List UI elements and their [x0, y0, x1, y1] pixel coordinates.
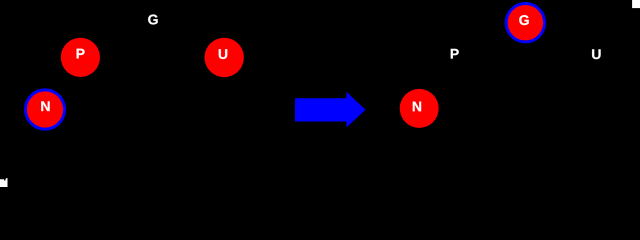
node G (right tree, red with blue current-node ring) [506, 4, 544, 42]
node P (left tree, red) [61, 38, 100, 77]
clipped white mark (top-right corner) [632, 0, 640, 8]
node P (right tree, black node - only white label visible) [451, 49, 459, 59]
node N (left tree, red with blue current-node ring) [25, 90, 64, 129]
clipped slide-number glyph "4" fragment (bottom-left corner) [0, 178, 8, 187]
node U (left tree, red) [205, 38, 244, 77]
node G (left tree, black node - only white label visible) [148, 15, 157, 25]
node U (right tree, black node - only white label visible) [592, 49, 600, 59]
node N (right tree, red) [400, 89, 439, 128]
transformation arrow (blue) [295, 92, 366, 128]
